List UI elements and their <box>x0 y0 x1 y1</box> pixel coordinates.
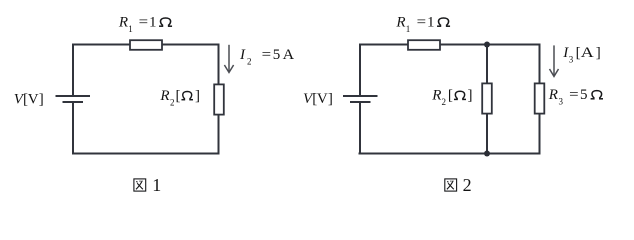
wire: fig2 right branch lower <box>539 114 541 155</box>
wire: fig2 right branch upper <box>539 44 541 84</box>
svg-text:R: R <box>118 15 128 31</box>
svg-text:1: 1 <box>128 24 133 34</box>
svg-text:5: 5 <box>580 87 588 103</box>
wire: fig2 middle branch upper <box>486 45 488 85</box>
wire: fig1 left branch upper <box>72 44 74 97</box>
svg-text:=: = <box>262 47 272 63</box>
svg-text:R: R <box>548 87 558 103</box>
svg-text:]: ] <box>596 45 601 61</box>
battery V (fig1) <box>56 96 91 102</box>
svg-text:1: 1 <box>149 15 157 31</box>
wire: fig2 left branch lower <box>359 102 361 155</box>
wire: fig2 left branch upper <box>359 44 361 97</box>
wire: fig1 top side left segment <box>72 44 130 46</box>
svg-text:[: [ <box>176 88 181 104</box>
svg-text:R: R <box>159 88 169 104</box>
battery V (fig2) <box>343 96 378 102</box>
svg-text:]: ] <box>195 88 200 104</box>
svg-text:1: 1 <box>406 24 411 34</box>
wire: fig2 middle branch lower <box>486 114 488 154</box>
resistor R1 (fig1) <box>130 40 162 50</box>
resistor R2 (fig2) <box>482 83 492 113</box>
node: fig2 bottom junction <box>484 151 490 157</box>
svg-text:1: 1 <box>152 175 161 195</box>
label R2[ohm] (fig1) <box>159 88 200 108</box>
svg-text:2: 2 <box>170 97 175 107</box>
caption: figure 2 (zu glyph + 2) <box>445 175 472 195</box>
resistor R2 (fig1) <box>214 84 224 114</box>
svg-text:1: 1 <box>427 15 435 31</box>
svg-text:V: V <box>317 91 328 107</box>
svg-text:3: 3 <box>569 54 574 64</box>
svg-text:=: = <box>417 15 427 31</box>
wire: fig2 top side from R1 to top-right corner <box>440 44 541 46</box>
svg-text:I: I <box>239 47 246 63</box>
svg-text:V: V <box>28 91 39 107</box>
label R3 = 5 ohm (fig2) <box>548 87 603 107</box>
label V[V] (fig1) <box>14 91 44 107</box>
svg-text:2: 2 <box>247 57 252 67</box>
svg-text:=: = <box>569 87 579 103</box>
caption: figure 1 (zu glyph + 1) <box>134 175 161 195</box>
label V[V] (fig2) <box>303 91 333 107</box>
label R1 = 1 ohm (fig1) <box>118 15 172 34</box>
wire: fig1 right branch upper <box>218 44 220 85</box>
svg-text:]: ] <box>328 91 333 107</box>
resistor R1 (fig2) <box>408 40 440 50</box>
current arrow I3 (fig2) <box>550 45 559 76</box>
label I2 = 5 A (fig1) <box>239 47 294 67</box>
svg-text:A: A <box>581 45 594 61</box>
svg-text:A: A <box>283 47 295 63</box>
current arrow I2 (fig1) <box>224 45 233 73</box>
wire: fig1 left branch lower <box>72 102 74 155</box>
wire: fig2 bottom side <box>359 153 541 155</box>
wire: fig1 top side right segment <box>162 44 220 46</box>
wire: fig1 bottom side <box>72 153 220 155</box>
svg-text:]: ] <box>39 91 44 107</box>
svg-text:=: = <box>139 15 149 31</box>
svg-text:3: 3 <box>559 97 564 107</box>
svg-text:2: 2 <box>442 97 447 107</box>
svg-text:]: ] <box>468 88 473 104</box>
wire: fig1 right branch lower <box>218 115 220 155</box>
label R2[ohm] (fig2) <box>431 88 472 108</box>
svg-text:R: R <box>395 15 405 31</box>
svg-text:R: R <box>431 88 441 104</box>
svg-text:[: [ <box>448 88 453 104</box>
svg-text:2: 2 <box>463 175 472 195</box>
resistor R3 (fig2) <box>535 83 545 113</box>
svg-text:5: 5 <box>273 47 281 63</box>
label I3[A] (fig2) <box>562 45 600 65</box>
node: fig2 top junction <box>484 42 490 48</box>
label R1 = 1 ohm (fig2) <box>395 15 450 34</box>
wire: fig2 top side left segment <box>359 44 409 46</box>
